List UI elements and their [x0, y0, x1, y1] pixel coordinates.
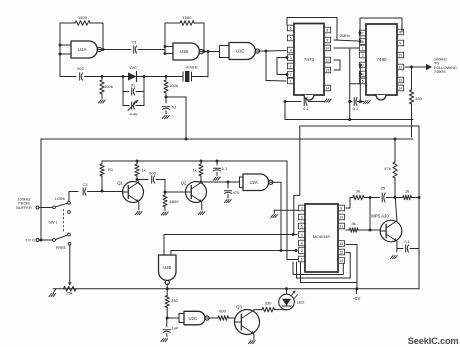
switch SW1 lower contact [68, 233, 71, 236]
svg-text:3k: 3k [356, 189, 360, 194]
svg-text:10: 10 [398, 54, 402, 58]
ground - Q3 emitter [249, 341, 256, 344]
svg-text:9: 9 [340, 207, 342, 211]
transistor Q1 [117, 181, 143, 203]
dashed link - SW1 gang [63, 209, 65, 233]
svg-text:SW 1: SW 1 [48, 221, 57, 225]
svg-text:0.1: 0.1 [222, 166, 227, 171]
ground - below 01 cap [163, 116, 170, 119]
label LOCK [55, 197, 66, 201]
wire - U2B left input drop [163, 235, 165, 256]
wire - MPSA20 emitter [396, 241, 398, 252]
switch SW1 upper open contact [68, 211, 71, 214]
svg-text:Q3: Q3 [236, 305, 242, 310]
svg-text:7: 7 [290, 73, 292, 77]
wire - +5V bottom rail [53, 288, 419, 290]
svg-text:1: 1 [362, 47, 364, 51]
wire - rail left drop [40, 139, 42, 240]
capacitor 600 (coupling) [137, 171, 165, 184]
node - LED on +5V rail [285, 287, 288, 290]
wire - U1C output to pin 4 [266, 50, 286, 53]
wire - 7473 pin 10 jog to 7490 [334, 48, 362, 121]
pin boxes - 7490 right [397, 29, 404, 91]
svg-text:1k: 1k [141, 168, 145, 173]
resistor 100k (to ground) [100, 77, 113, 100]
node - 100k bottom junction [165, 96, 168, 99]
svg-text:1500: 1500 [78, 15, 88, 20]
node - U1B output [203, 50, 206, 53]
svg-text:10: 10 [325, 47, 329, 51]
svg-text:U1C: U1C [236, 49, 245, 54]
node - TPO rail junction [40, 239, 43, 242]
svg-text:47k: 47k [384, 166, 390, 171]
capacitor C3 [69, 182, 102, 195]
svg-text:7: 7 [362, 32, 364, 36]
wire - MPSA20 collector [395, 198, 397, 221]
wire - to 6800 junction [164, 180, 166, 193]
switch SW1 lower arm [55, 235, 67, 240]
svg-text:3k: 3k [351, 221, 355, 226]
wire - U2A input tie [240, 177, 244, 188]
resistor 1k (filter) [395, 189, 419, 200]
capacitor 01 (to ground at osc) [162, 97, 177, 114]
svg-text:U1B: U1B [180, 49, 188, 54]
capacitor 01 (parallel with varactor) [123, 83, 144, 96]
node - U2A output at pin 2 net [280, 249, 298, 252]
svg-text:+5V: +5V [353, 296, 361, 301]
label T P O [25, 239, 35, 243]
wire - U2C input tie [179, 314, 184, 323]
svg-text:13: 13 [398, 79, 402, 83]
wire - 100kHz reference rail [41, 138, 413, 140]
resistor R1 [100, 161, 114, 191]
label SW 1 [48, 221, 57, 225]
svg-text:600: 600 [149, 171, 156, 176]
wire - base into Q1 [102, 191, 123, 193]
terminal - TPO [36, 239, 39, 242]
resistor 600 [218, 309, 235, 321]
svg-text:9: 9 [399, 42, 401, 46]
op-amp U1B (NAND gate U1B) [173, 43, 204, 60]
svg-text:13: 13 [339, 242, 343, 246]
capacitor 1uF [163, 318, 179, 337]
node - filter junction 2 [394, 196, 397, 199]
resistor 330 (U2B output) [165, 296, 179, 319]
svg-text:1k: 1k [405, 189, 409, 194]
wire - FREE contact down to pot [69, 245, 71, 282]
wire - 7490 bypass to ground [357, 101, 364, 103]
diode VVC (varactor) [123, 65, 144, 82]
wire - loop A under chip [293, 262, 343, 275]
svg-text:6800: 6800 [170, 199, 180, 204]
svg-text:7473: 7473 [304, 57, 315, 62]
wire - U1A input tie vertical [59, 23, 61, 77]
svg-text:5: 5 [301, 225, 303, 229]
wire - pin to 3k base [346, 229, 350, 231]
wire - 7490 output [405, 66, 426, 68]
node - 7490 pin 6 [359, 40, 362, 43]
svg-text:3: 3 [290, 56, 292, 60]
svg-text:2: 2 [301, 249, 303, 253]
op-amp U2A (NAND gate U2A) [243, 174, 273, 191]
node - oscillator tap on rail [185, 138, 188, 141]
ground - 7490 bypass [364, 101, 371, 104]
svg-text:14: 14 [325, 87, 329, 91]
node - U1C output junction [265, 50, 268, 53]
svg-text:4 MHz: 4 MHz [186, 65, 198, 70]
wire - U2C out [206, 317, 218, 319]
node - U2B output on rail [166, 287, 169, 290]
ground - MC4044 pin stub [271, 210, 299, 217]
wire - Q1 emitter to ground [138, 202, 140, 210]
wire - pin stub to filter [346, 198, 353, 209]
arrow - output [426, 64, 432, 70]
svg-text:6: 6 [362, 40, 364, 44]
svg-text:BUFFER: BUFFER [16, 206, 31, 210]
wire - LOCK contact up to C3 [68, 192, 70, 202]
node - crystal tap [207, 50, 210, 53]
resistor 1k (Q1 collector) [135, 161, 146, 180]
svg-text:FREE: FREE [56, 246, 67, 250]
node - Q2 collector junction [200, 181, 203, 184]
wire - 002 to 100k [85, 76, 124, 78]
wire - lower bus [300, 125, 419, 127]
svg-text:LED: LED [297, 300, 305, 305]
svg-text:470: 470 [233, 190, 240, 195]
node - U2C input junction [166, 317, 169, 320]
ground - Q2 emitter [198, 212, 205, 215]
potentiometer 25k [64, 286, 77, 295]
svg-text:4-40: 4-40 [129, 112, 138, 117]
svg-text:4: 4 [362, 73, 364, 77]
wire - tap to crystal [166, 76, 183, 78]
wire - U1A input stubs [60, 45, 71, 54]
resistor 3k (base) [350, 221, 370, 232]
wire - bypass to ground [309, 101, 326, 103]
svg-text:002: 002 [77, 66, 84, 71]
capacitor 4-40 (trimmer) [123, 100, 144, 117]
capacitor 0.1 (7473 bypass) [303, 98, 308, 112]
pin boxes - 7473 right [324, 27, 331, 91]
svg-text:6: 6 [301, 216, 303, 220]
label 2MHz [340, 33, 350, 38]
wire - U1B output to U1C [201, 51, 220, 53]
node - 47k tap on rail [394, 138, 397, 141]
svg-text:7490: 7490 [376, 57, 387, 62]
svg-text:100k: 100k [169, 83, 178, 88]
resistor 1500 (U1B feedback) [165, 15, 204, 52]
svg-text:600: 600 [219, 309, 226, 314]
IC U5 MC4044P body [305, 204, 338, 272]
wire - 7490 top loop [360, 18, 402, 33]
pin boxes - 7490 left [359, 30, 366, 84]
svg-text:10: 10 [339, 216, 343, 220]
svg-text:8: 8 [301, 242, 303, 246]
node - U1B lower input [164, 52, 167, 55]
svg-text:SeekIC.com: SeekIC.com [408, 336, 459, 346]
resistor 6800 [163, 192, 179, 211]
svg-text:13: 13 [325, 69, 329, 73]
wire - Q2 emitter to ground [201, 202, 203, 210]
node - U1A upper input [59, 44, 62, 47]
wire - +5V horizontal bus [285, 102, 413, 120]
ground - 6800 [162, 212, 169, 215]
svg-text:6: 6 [290, 27, 292, 31]
node - varactor right [143, 75, 146, 78]
svg-text:12: 12 [398, 66, 402, 70]
wire - Q2 collector to U2A [201, 181, 240, 183]
svg-text:1500: 1500 [183, 15, 193, 20]
wire - varactor to 100k tap [144, 76, 166, 78]
resistor 330 (7490 output) [409, 67, 422, 137]
svg-text:330: 330 [171, 298, 178, 303]
transistor Q4 MPSA20 [371, 214, 402, 242]
svg-text:1k: 1k [192, 168, 196, 173]
switch SW1 lower pole [53, 239, 56, 242]
node - U1B upper input [164, 45, 167, 48]
wire - loop C under chip [301, 245, 358, 283]
svg-text:0.1: 0.1 [404, 239, 409, 244]
resistor 47k [384, 139, 397, 198]
wire - 7490 bypass row [350, 101, 352, 103]
svg-text:U1A: U1A [78, 47, 86, 52]
wire - U1C output down to pin 1 [266, 51, 286, 81]
wire - 7473 top loop [287, 18, 337, 41]
node - Q1 collector junction [136, 178, 139, 181]
svg-text:T P O: T P O [25, 239, 35, 243]
ground - 470 cap [225, 200, 232, 203]
wire - 7473 pin 9 to 7490 (2MHz) [334, 40, 358, 41]
svg-text:MPS A20: MPS A20 [371, 214, 389, 219]
wire - U2B input 1 to MC4044 [164, 234, 297, 236]
svg-text:14: 14 [398, 87, 402, 91]
svg-text:25k: 25k [66, 291, 72, 296]
capacitor 0.1 (emitter) [397, 239, 419, 252]
node - Q1 1k top [136, 160, 139, 163]
wire - crystal branch vertical [207, 52, 209, 78]
wire - U2B right input drop [170, 251, 172, 256]
op-amp U2B (NAND gate U2B) [159, 255, 177, 285]
svg-text:MC4044P: MC4044P [313, 234, 331, 239]
node - 6800 junction [164, 191, 167, 194]
svg-text:7490'S: 7490'S [434, 70, 446, 74]
wire - U1A output to coupling cap [99, 49, 131, 51]
wire - Q3 collector up [254, 309, 262, 312]
wire - U1B input tie [165, 47, 173, 54]
wire - base into Q2 [165, 191, 186, 193]
node - U1A output [102, 48, 105, 51]
node - bypass 0.1 top [216, 160, 219, 163]
node - 470 tap [227, 181, 230, 184]
svg-text:14: 14 [339, 259, 343, 263]
ground - below 100k [99, 100, 106, 103]
wire - oscillator lower rail left [60, 76, 76, 78]
terminal - input [36, 206, 39, 209]
pin boxes - 7473 left [287, 25, 294, 84]
op-amp U1A (NAND gate U1A) [71, 41, 102, 58]
svg-text:11: 11 [340, 225, 344, 229]
svg-text:1uF: 1uF [172, 326, 179, 331]
svg-text:2: 2 [362, 54, 364, 58]
node - 7490 pin 7 [359, 32, 362, 35]
svg-text:100k: 100k [104, 84, 113, 89]
label - 100kHz FROM BUFFER [16, 198, 31, 210]
node - Q2 1k top [200, 160, 203, 163]
node - 7490 output junction [410, 66, 413, 69]
wire - U1C input tie [220, 46, 230, 58]
svg-text:U2A: U2A [250, 180, 258, 185]
wire - TPO to pole [39, 239, 53, 241]
arrow - pot wiper [68, 282, 72, 285]
node - pin 7 stub [286, 73, 289, 76]
wire - transistor supply rail [102, 160, 287, 162]
svg-text:3: 3 [362, 64, 364, 68]
node - +5V at 7490 bypass [348, 100, 362, 103]
wire - parallel loop right [143, 77, 145, 106]
svg-text:1: 1 [301, 258, 303, 262]
svg-text:Q2: Q2 [181, 181, 187, 186]
ground - rail bypass [214, 177, 221, 180]
wire - lower bus left drop [292, 126, 300, 236]
node - 100k tap [101, 75, 104, 78]
node - base tee [369, 229, 372, 232]
svg-text:330: 330 [415, 96, 422, 101]
svg-text:C3: C3 [82, 182, 88, 187]
op-amp U2C (NAND gate U2C) [184, 311, 209, 325]
svg-text:R1: R1 [108, 167, 114, 172]
switch SW1 FREE contact [68, 242, 71, 245]
svg-text:4: 4 [290, 49, 292, 53]
wire - 7490 pins 7-6 tie [359, 33, 361, 42]
svg-text:8: 8 [399, 31, 401, 35]
pin boxes - MC4044 left [298, 205, 305, 262]
wire - supply rail drop [287, 161, 298, 260]
svg-text:0.1: 0.1 [353, 106, 358, 111]
svg-text:5: 5 [362, 80, 364, 84]
svg-text:12: 12 [325, 59, 329, 63]
svg-text:U2B: U2B [163, 265, 171, 270]
svg-text:2MHz: 2MHz [340, 33, 350, 38]
resistor 1k (Q2 collector) [192, 161, 203, 182]
svg-text:05: 05 [381, 186, 386, 191]
wire - U2B input 2 / U2A net to MC4044 [171, 250, 297, 252]
label - SeekIC.com watermark [408, 336, 459, 346]
node - varactor left [122, 75, 125, 78]
resistor 330 (LED) [262, 301, 287, 312]
crystal 4MHz [183, 65, 208, 83]
capacitor 002 [77, 66, 84, 80]
svg-text:12: 12 [339, 251, 343, 255]
wire - cap to U1B inputs [138, 49, 165, 51]
svg-text:VVC: VVC [129, 65, 137, 70]
capacitor 470 [224, 182, 240, 198]
resistor 100k (second) [164, 77, 178, 98]
svg-text:2: 2 [290, 65, 292, 69]
wire - U1C output [257, 50, 266, 52]
node - filter junction 1 [369, 196, 372, 199]
wire - loop C to +5V rail [356, 283, 358, 289]
switch SW1 upper pole [53, 206, 56, 209]
svg-text:4: 4 [301, 233, 303, 237]
ground - 7473 bypass [325, 99, 332, 102]
capacitor 0.1 (7490 bypass) [353, 98, 358, 112]
svg-text:Q1: Q1 [117, 181, 123, 186]
wire - Q3 emitter [253, 334, 255, 340]
wire - 7473 right tie loop [334, 60, 340, 70]
pin boxes - MC4044 right [338, 205, 345, 263]
svg-text:U2C: U2C [188, 316, 197, 321]
node - +5V at 7473 bypass [284, 100, 287, 103]
node - R1 base junction [101, 190, 104, 193]
IC U3 7473 body [294, 24, 324, 101]
node - second 100k tap [165, 75, 168, 78]
switch SW1 LOCK contact [68, 201, 71, 204]
svg-text:0.1: 0.1 [303, 106, 308, 111]
svg-text:9: 9 [326, 39, 328, 43]
node - U1A lower input [59, 53, 62, 56]
transistor Q3 [235, 305, 260, 335]
svg-text:01: 01 [172, 105, 177, 110]
wire - lower bus right drop [418, 126, 420, 289]
op-amp U1C (NAND gate U1C) [229, 43, 260, 60]
capacitor 01 (U1A-U1B coupling) [132, 40, 137, 54]
label FREE [56, 246, 67, 250]
svg-text:3: 3 [301, 207, 303, 211]
resistor 1500 (U1A feedback) [60, 15, 103, 50]
wire - 7473 bypass row [285, 101, 301, 103]
LED D1 [279, 289, 305, 310]
switch SW1 upper arm [55, 203, 67, 207]
wire - Q1 collector stub [137, 180, 139, 183]
svg-text:5: 5 [290, 37, 292, 41]
capacitor 05 (filter) [370, 186, 395, 203]
svg-text:01: 01 [131, 83, 136, 88]
node - +5V label junction [355, 287, 358, 290]
wire - parallel loop left [122, 77, 124, 106]
wire - junction to U2C [167, 317, 179, 319]
transistor Q2 [181, 181, 207, 203]
wire - 7473 left tie loop [277, 58, 287, 75]
label - 100kHz TO FOLLOWING 7490S [434, 58, 457, 75]
wire - loop B under chip [297, 253, 351, 279]
svg-text:1: 1 [290, 80, 292, 84]
capacitor 0.1 (rail bypass) [213, 161, 227, 176]
node - pin 3 stub [286, 56, 289, 59]
node - filter to +5V drop [418, 196, 421, 199]
label +5V [353, 289, 361, 301]
wire - input to switch pole [39, 207, 53, 209]
wire - base into MPSA20 [370, 229, 381, 231]
ground - pot left [49, 289, 56, 297]
ground - 1uF cap [161, 339, 168, 342]
resistor 3k (filter) [353, 189, 370, 200]
wire - base tee up to filter [369, 198, 371, 231]
ground - MPSA20 emitter [391, 256, 398, 259]
svg-text:LOCK: LOCK [55, 197, 66, 201]
wire - junction right then down [166, 97, 186, 139]
wire - U2A output drop [270, 182, 281, 250]
ground - Q1 emitter [135, 212, 142, 215]
svg-text:01: 01 [132, 40, 137, 45]
IC U4 7490 body [366, 24, 397, 100]
wire - U2B output drop [166, 284, 168, 296]
svg-text:330: 330 [265, 301, 272, 306]
svg-text:8: 8 [326, 29, 328, 33]
